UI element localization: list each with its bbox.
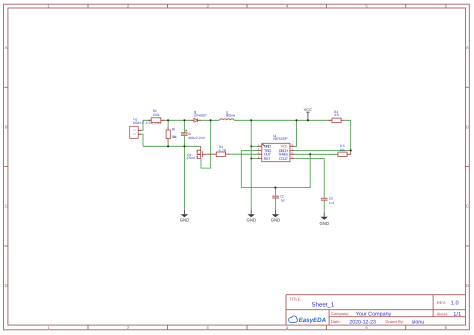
diode D1 <box>190 110 207 122</box>
junction C1 top <box>183 119 185 121</box>
svg-text:VCC: VCC <box>304 108 313 112</box>
wire bottom rail <box>143 145 201 147</box>
svg-text:330k: 330k <box>172 135 178 139</box>
wire to ground G1 <box>183 146 185 210</box>
svg-text:800mA: 800mA <box>226 113 236 117</box>
wire C3 to ground <box>323 201 325 213</box>
wire top rail <box>143 119 331 121</box>
wire COUT to C3 <box>295 158 325 197</box>
svg-text:2020-12-23: 2020-12-23 <box>349 319 376 325</box>
svg-text:Company:: Company: <box>331 311 349 316</box>
resistor R4 <box>328 110 345 123</box>
ground G3 <box>271 210 281 223</box>
junction U1 VCC pin to rail <box>295 119 297 121</box>
junction VCC flag <box>307 119 309 121</box>
resistor R1 <box>148 109 165 122</box>
wire GND pin vertical <box>250 120 252 210</box>
svg-text:GND: GND <box>320 221 330 226</box>
svg-text:Sheet_1: Sheet_1 <box>312 301 335 308</box>
svg-text:RST: RST <box>264 157 271 161</box>
wire bottom TRIG-THRES <box>241 154 310 187</box>
svg-text:4.7R: 4.7R <box>219 149 227 153</box>
svg-text:B: B <box>5 124 8 129</box>
wire TRIG branch <box>241 151 257 188</box>
svg-text:400v2.2mf: 400v2.2mf <box>188 136 205 140</box>
op-amp U1 (NE555P timer) <box>257 134 295 162</box>
wire RST pin stub <box>251 157 257 159</box>
svg-text:TITLE:: TITLE: <box>290 296 302 301</box>
VCC net flag <box>304 108 313 120</box>
svg-text:150k: 150k <box>153 113 160 117</box>
svg-text:2N60: 2N60 <box>187 156 196 160</box>
wire C2 drop <box>274 188 276 210</box>
svg-text:1nf: 1nf <box>329 201 334 205</box>
svg-text:D: D <box>5 283 8 288</box>
wire R2 branch <box>167 120 169 146</box>
inductor L1 <box>219 110 236 120</box>
resistor R2 <box>166 126 177 142</box>
svg-text:10k: 10k <box>340 148 346 152</box>
capacitor C1 <box>181 130 205 140</box>
svg-text:Drawn By:: Drawn By: <box>386 319 404 324</box>
connector H1 <box>130 118 162 139</box>
svg-text:NE555P: NE555P <box>273 137 288 141</box>
svg-text:1nf: 1nf <box>281 198 285 202</box>
resistor R3 <box>206 145 230 156</box>
svg-text:4.7k: 4.7k <box>334 113 339 117</box>
junction U1 RST pin <box>250 158 252 160</box>
wire GND pin stub <box>251 145 257 147</box>
title block <box>286 295 466 325</box>
ground G4 <box>320 212 330 226</box>
capacitor C3 <box>321 197 334 205</box>
EasyEDA logo <box>288 316 326 324</box>
svg-text:Date:: Date: <box>331 319 341 324</box>
svg-text:D: D <box>466 283 469 288</box>
junction U1 GND pin <box>250 145 252 147</box>
wire VCC pin to rail <box>295 120 297 146</box>
svg-text:UF4007: UF4007 <box>194 113 208 117</box>
wire Q1 source loop to switch node <box>201 120 211 168</box>
svg-text:A: A <box>466 45 469 50</box>
junction THRES net <box>309 153 311 155</box>
svg-text:GND: GND <box>271 218 281 223</box>
wire H1 top pin to rail <box>141 120 143 130</box>
wire R4 to R5 vertical <box>345 120 351 150</box>
svg-text:GND: GND <box>180 218 190 223</box>
wire H1 bottom pin to bottom rail <box>141 134 143 146</box>
wire DISCH <box>295 149 351 151</box>
capacitor C2 <box>272 194 284 202</box>
svg-text:Your Company: Your Company <box>356 312 392 318</box>
svg-text:GND: GND <box>247 218 257 223</box>
wire R3 to OUT pin <box>230 153 257 155</box>
wire C1 branch <box>183 120 185 146</box>
junction DISCH/R4/R5 <box>350 149 352 151</box>
svg-text:slonu: slonu <box>412 319 425 325</box>
junction D1/Q1 switch node <box>210 119 212 121</box>
svg-text:REV:: REV: <box>437 300 446 305</box>
svg-text:R2: R2 <box>172 128 176 132</box>
ground G1 <box>180 210 190 223</box>
svg-text:EasyEDA: EasyEDA <box>299 317 327 324</box>
svg-text:1/1: 1/1 <box>453 311 461 318</box>
junction R2 bottom <box>167 145 169 147</box>
wire THRES to R5 <box>295 153 339 155</box>
resistor R5 <box>338 144 351 156</box>
ground G2 <box>247 210 257 223</box>
junction C2 top <box>274 187 276 189</box>
svg-text:1.0: 1.0 <box>451 301 459 307</box>
svg-text:A: A <box>5 45 8 50</box>
svg-text:C: C <box>5 204 8 209</box>
junction L1/U1 GND rail <box>250 119 252 121</box>
junction R1/R2 top <box>167 119 169 121</box>
svg-text:Sheet:: Sheet: <box>437 311 449 316</box>
svg-text:C: C <box>466 204 469 209</box>
transistor Q1 <box>187 146 207 160</box>
junction C1 bottom / ground drop <box>183 145 185 147</box>
svg-text:COUT: COUT <box>279 157 289 161</box>
svg-text:B: B <box>466 124 469 129</box>
